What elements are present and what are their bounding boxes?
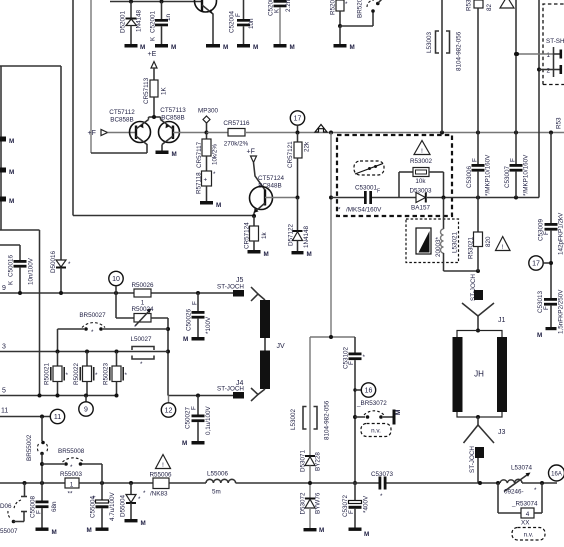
svg-text:ST-JOCH: ST-JOCH — [469, 446, 476, 473]
connector ST-JOCH (J1) — [462, 274, 506, 331]
capacitor C52005 2.2n — [268, 0, 293, 44]
spark gap BR55002 — [26, 417, 48, 484]
capacitor C53102 — [343, 337, 366, 483]
svg-text:M: M — [319, 527, 324, 534]
svg-text:F: F — [543, 306, 550, 310]
circle node 16 — [353, 383, 375, 397]
svg-text:M: M — [52, 529, 57, 536]
spark gap BR55008 — [42, 448, 102, 483]
svg-text:M: M — [171, 44, 176, 51]
svg-text:M: M — [264, 251, 269, 258]
wire vertical x=73 from top — [72, 0, 74, 216]
svg-text:3: 3 — [2, 344, 6, 351]
spark gap BR52021 (cut at top) — [357, 0, 383, 18]
wire pin1 column x=516 top — [514, 0, 518, 133]
svg-text:/NK83: /NK83 — [150, 491, 168, 498]
inductor L53021 winding — [435, 198, 459, 272]
svg-text:68n: 68n — [51, 501, 58, 512]
svg-text:M: M — [140, 44, 145, 51]
svg-text:M: M — [172, 151, 177, 158]
capacitor C52001 1n — [150, 2, 173, 45]
svg-text:F: F — [192, 301, 199, 305]
svg-text:1,5nFKP2/250V: 1,5nFKP2/250V — [558, 289, 564, 334]
svg-text:M: M — [290, 44, 295, 51]
svg-text:M: M — [183, 336, 188, 343]
svg-text:XX: XX — [521, 520, 530, 527]
svg-text:R53: R53 — [556, 117, 563, 129]
svg-text:D53072: D53072 — [300, 492, 307, 515]
svg-text:_R53074: _R53074 — [511, 501, 538, 508]
svg-text:CT57124: CT57124 — [258, 175, 284, 182]
svg-text:4: 4 — [526, 511, 530, 518]
resistor CR57116 270k/2% — [207, 120, 251, 148]
svg-text:R50023: R50023 — [103, 362, 110, 385]
svg-text:M: M — [364, 531, 369, 538]
svg-text:1N4148: 1N4148 — [303, 225, 310, 248]
svg-text:M: M — [395, 410, 402, 415]
inductor L53003 (top) — [426, 0, 463, 133]
svg-text:n.v.: n.v. — [371, 428, 381, 435]
wire grey x=91 (collector return) — [91, 0, 147, 153]
flyback core symbol — [416, 228, 431, 254]
connector J4 ST-JOCH — [217, 380, 258, 401]
svg-text:10: 10 — [112, 276, 120, 283]
svg-text:820: 820 — [485, 236, 492, 247]
big dashed box — [337, 135, 452, 216]
svg-text:D52001: D52001 — [120, 10, 127, 33]
svg-text:R52006: R52006 — [330, 0, 337, 15]
svg-text:C53006: C53006 — [466, 165, 473, 188]
capacitor C52004 10n — [229, 0, 256, 44]
svg-text:C50016: C50016 — [8, 254, 15, 277]
svg-text:C55004: C55004 — [90, 495, 97, 518]
wire y=197.5 right — [427, 196, 539, 200]
capacitor C55004 4.7u/100V — [90, 483, 117, 528]
resistor R53002 10k — [399, 158, 444, 198]
svg-text:BR50027: BR50027 — [79, 312, 106, 319]
svg-text:L53002: L53002 — [290, 408, 297, 430]
svg-text:16: 16 — [365, 388, 373, 395]
capacitor C53007 /MKP10/160V — [504, 133, 530, 198]
svg-text:C52001: C52001 — [150, 10, 157, 33]
capacitor C50026 *100V — [186, 293, 213, 337]
ground M (C52005) — [274, 44, 295, 51]
svg-text:L53003: L53003 — [426, 31, 433, 53]
capacitor C53001 /MKS4/160V — [331, 185, 416, 214]
node 11 wire — [0, 408, 50, 419]
svg-text:16A: 16A — [551, 472, 562, 478]
svg-text:M: M — [9, 169, 14, 176]
svg-text:ST-JOCH: ST-JOCH — [217, 386, 244, 393]
node 3 bus y=351.5 — [0, 344, 168, 354]
svg-text:D55004: D55004 — [120, 494, 127, 517]
warning triangle (R53021) — [496, 237, 511, 252]
svg-text:0,1u/100V: 0,1u/100V — [205, 405, 212, 435]
spark gap BR50027 — [58, 312, 169, 352]
svg-text:ST-SH: ST-SH — [546, 38, 564, 45]
svg-text:J1: J1 — [498, 317, 506, 324]
spark gap BR53072 n.v. — [353, 400, 402, 437]
transistor CT57124 BC848B — [250, 175, 298, 218]
svg-text:F: F — [543, 231, 550, 235]
svg-text:F: F — [472, 158, 479, 162]
svg-text:R57118: R57118 — [196, 172, 203, 194]
svg-text:CR57116: CR57116 — [223, 120, 250, 127]
svg-text:09246-: 09246- — [504, 489, 524, 496]
inductor L55006 5m (inline) — [206, 471, 236, 496]
svg-text:CR57117: CR57117 — [196, 141, 203, 168]
diode D53071 BY228 — [300, 449, 322, 483]
svg-text:82: 82 — [486, 3, 493, 11]
svg-text:M: M — [182, 440, 187, 447]
diode D52001 1N4148 — [120, 2, 143, 45]
svg-text:1: 1 — [70, 482, 74, 489]
svg-text:55007: 55007 — [0, 528, 18, 535]
svg-text:F: F — [348, 510, 355, 514]
svg-text:BR55002: BR55002 — [26, 434, 33, 461]
svg-text:C50026: C50026 — [186, 308, 193, 331]
ground M (R57118) — [200, 201, 221, 209]
pin M marker 2 — [0, 168, 14, 177]
svg-text:R53021: R53021 — [468, 236, 475, 259]
circle node 10 — [109, 271, 123, 293]
resistor CR57117 10k/2% — [196, 133, 219, 172]
pin M marker 1 — [0, 137, 14, 146]
svg-text:F: F — [348, 361, 355, 365]
svg-text:M: M — [350, 44, 355, 51]
svg-text:+F: +F — [247, 149, 255, 156]
wire top bus y=1.5 — [110, 0, 201, 4]
diode D53072 BYW76 — [300, 483, 322, 528]
svg-text:F: F — [377, 189, 380, 195]
wire left y=230 — [0, 230, 40, 396]
page connector arrow — [315, 125, 327, 133]
svg-text:R50022: R50022 — [73, 362, 80, 385]
resistor R53021 820 — [468, 198, 493, 272]
svg-text:4.7u/100V: 4.7u/100V — [109, 491, 116, 521]
main bus y=483 — [0, 481, 557, 485]
ground M (C55004) — [87, 527, 109, 534]
svg-text:F: F — [235, 13, 242, 17]
svg-text:L55006: L55006 — [207, 471, 229, 478]
svg-text:CR57124: CR57124 — [244, 222, 251, 249]
svg-text:BR52021: BR52021 — [357, 0, 364, 18]
capacitor C53072 *400V — [342, 481, 370, 528]
resistor R50021 — [44, 352, 69, 396]
svg-text:5m: 5m — [212, 489, 221, 496]
ground M (R52006) — [334, 26, 355, 51]
svg-text:F: F — [510, 158, 517, 162]
circle node 9 — [79, 396, 93, 417]
svg-text:12: 12 — [165, 408, 173, 415]
resistor R50023 — [103, 352, 128, 396]
svg-text:C53073: C53073 — [371, 471, 394, 478]
inductor L53002 — [290, 337, 331, 456]
wire x=539 (pin 2 net) — [537, 0, 541, 198]
connector J5 ST-JOCH — [217, 277, 258, 301]
node 5 bus y=395.5 — [0, 388, 119, 398]
resistor R50026 1 (inline) — [131, 282, 154, 307]
svg-text:R50021: R50021 — [44, 362, 51, 385]
warning triangle (top edge) — [500, 0, 514, 8]
wire R52006 to spark gap — [340, 12, 373, 26]
svg-text:10n/100V: 10n/100V — [28, 257, 35, 285]
svg-text:D06: D06 — [0, 503, 12, 510]
diode D50016 — [50, 66, 71, 293]
wire left box top y=66 — [0, 66, 61, 230]
svg-text:R530: R530 — [466, 0, 473, 11]
svg-text:D53003: D53003 — [409, 188, 432, 195]
svg-text:BA157: BA157 — [411, 205, 430, 212]
svg-text:22k: 22k — [304, 141, 311, 152]
svg-text:9: 9 — [2, 285, 6, 292]
ground M (CT57113) — [156, 151, 177, 159]
svg-text:M: M — [537, 332, 542, 339]
ground M (D53072) — [304, 527, 325, 534]
capacitor C50016 10n/100V — [0, 245, 35, 293]
circle node 17 (right) — [529, 256, 549, 270]
svg-text:+E: +E — [148, 51, 157, 58]
svg-text:1: 1 — [547, 52, 551, 59]
ground M (D55004) — [125, 519, 146, 527]
svg-text:F: F — [191, 406, 198, 410]
svg-text:*100V: *100V — [205, 316, 212, 334]
svg-text:11: 11 — [1, 408, 8, 415]
svg-text:*400V: *400V — [363, 495, 370, 513]
diode D55004 (zener) — [120, 483, 142, 519]
capacitor C55008 68n — [30, 483, 59, 528]
svg-text:+F: +F — [88, 130, 96, 137]
svg-text:M: M — [307, 251, 312, 258]
wire to JH column — [444, 269, 481, 273]
svg-text:17: 17 — [294, 116, 302, 123]
resistor CR57124 1k — [244, 216, 269, 250]
svg-text:*/MKP10/160V: */MKP10/160V — [523, 154, 530, 196]
resistor R53074 4 XX n.v. — [498, 483, 545, 540]
wire long horizontal y=215.5 — [73, 215, 254, 217]
svg-text:L53074: L53074 — [511, 465, 533, 472]
ground M (C52001) — [155, 44, 176, 51]
diode D57122 1N4148 — [288, 198, 311, 252]
connector J3 — [464, 417, 506, 483]
capacitor C53013 1,5nFKP2/250V — [537, 289, 564, 334]
ground M (C53013) — [537, 327, 557, 339]
svg-text:+: + — [204, 177, 208, 184]
ground M (C50027) — [182, 440, 205, 447]
warning triangle (in box) — [414, 141, 430, 156]
ground M (D52001) — [125, 44, 146, 51]
svg-text:1N4148: 1N4148 — [136, 9, 143, 32]
node emitters junction — [149, 115, 161, 119]
ground M (C52004) — [237, 44, 258, 51]
inductor L50027 — [130, 336, 154, 368]
ground M (CR57124) — [248, 250, 269, 258]
circle node 11 — [50, 409, 64, 423]
spark gap BR55006/BR55007 (left edge) — [0, 483, 27, 535]
svg-text:F: F — [36, 510, 43, 514]
transistor CT57113 BC858B — [159, 107, 207, 151]
svg-text:BYW76: BYW76 — [315, 492, 322, 514]
svg-text:M: M — [141, 520, 146, 527]
resistor R52006 — [330, 0, 349, 28]
svg-text:/MKS4/160V: /MKS4/160V — [346, 207, 382, 214]
svg-text:M: M — [253, 44, 258, 51]
node 9 bus y=293 — [0, 285, 233, 295]
svg-text:BY228: BY228 — [315, 452, 322, 471]
circle node 17 (left) — [290, 111, 304, 133]
svg-text:1k: 1k — [261, 231, 268, 239]
svg-text:M: M — [9, 198, 14, 205]
svg-text:R50024: R50024 — [131, 306, 154, 313]
ground M (C50026) — [183, 336, 205, 343]
inner dashed box (flyback) — [406, 219, 459, 263]
svg-text:JH: JH — [474, 370, 484, 379]
label R (cut, right edge) — [556, 117, 563, 129]
inductor L53074 (adjustable, inline) — [500, 465, 537, 496]
svg-text:L53021: L53021 — [452, 231, 459, 253]
svg-text:M: M — [216, 202, 221, 209]
resistor CR57121 22k — [287, 133, 311, 200]
svg-text:142pFKP1/2kV: 142pFKP1/2kV — [558, 212, 564, 255]
svg-text:**: ** — [68, 491, 73, 498]
resistor R55003 1 (inline) — [60, 471, 83, 498]
node +F (left) — [88, 130, 137, 138]
pin M marker 3 — [0, 197, 14, 206]
svg-text:R55003: R55003 — [60, 471, 83, 478]
svg-text:ST-JOCH: ST-JOCH — [217, 284, 244, 291]
transistor CT57112 BC858B — [109, 109, 150, 145]
yoke JH — [453, 329, 508, 420]
wire grey main y=132.5 — [245, 131, 564, 135]
capacitor C50027 0,1u/100V — [185, 396, 213, 442]
svg-text:M: M — [87, 527, 92, 534]
svg-text:C53001: C53001 — [355, 185, 378, 192]
connector ST-SH (dashed, top right) — [515, 4, 564, 85]
svg-text:BR55008: BR55008 — [58, 448, 85, 455]
svg-text:1K: 1K — [161, 86, 168, 95]
circle node 16A — [549, 465, 564, 481]
svg-text:CT57113: CT57113 — [160, 107, 186, 114]
yoke winding JV — [258, 294, 285, 395]
svg-text:9: 9 — [84, 407, 88, 414]
svg-text:8104-982-056: 8104-982-056 — [324, 400, 331, 440]
svg-text:*/MKP10/160V: */MKP10/160V — [485, 154, 492, 196]
capacitor C53009 142pFKP1/2kV — [538, 133, 564, 299]
ground M (C53072) — [349, 528, 370, 539]
svg-text:1n: 1n — [165, 13, 172, 21]
resistor R57118 (trimmer) — [196, 171, 217, 201]
svg-text:8104-982-056: 8104-982-056 — [456, 31, 463, 71]
wire x=168 column — [166, 318, 233, 398]
resistor R53005 (top edge) — [466, 0, 494, 133]
ground M (T52002) — [206, 44, 228, 51]
svg-text:D53071: D53071 — [300, 449, 307, 472]
svg-text:17: 17 — [532, 261, 540, 268]
svg-text:10n: 10n — [248, 18, 255, 29]
svg-text:CR57113: CR57113 — [143, 77, 150, 104]
svg-text:D57122: D57122 — [288, 223, 295, 246]
svg-text:C53009: C53009 — [538, 218, 545, 241]
capacitor C53073 (inline) — [371, 471, 394, 500]
wire grey junction y=337 — [310, 335, 355, 339]
resistor R50022 — [73, 352, 98, 396]
node +E — [148, 51, 158, 80]
svg-text:J3: J3 — [498, 429, 506, 436]
svg-text:n.v.: n.v. — [524, 532, 534, 539]
resistor CR57113 1K — [143, 77, 168, 117]
circle node 12 — [161, 396, 175, 418]
node +F (CT57124) — [247, 149, 266, 191]
ground M (C55008) — [36, 528, 57, 537]
svg-text:MP300: MP300 — [198, 108, 218, 115]
svg-text:R53002: R53002 — [410, 158, 433, 165]
svg-text:11: 11 — [54, 414, 61, 421]
svg-text:10k/2%: 10k/2% — [212, 144, 219, 165]
svg-text:2: 2 — [547, 68, 551, 75]
capacitor C53006 /MKP10/160V — [466, 133, 492, 198]
svg-text:10k: 10k — [415, 178, 426, 185]
test point MP300 — [198, 108, 218, 135]
svg-text:CR57121: CR57121 — [287, 141, 294, 168]
resistor R50024 (adjustable) — [116, 293, 168, 331]
svg-text:L50027: L50027 — [130, 336, 152, 343]
svg-text:C53007: C53007 — [504, 165, 511, 188]
svg-text:R55006: R55006 — [149, 472, 172, 479]
svg-text:270k/2%: 270k/2% — [224, 141, 249, 148]
ground M (D57122) — [292, 251, 312, 258]
n.v. crossed spark gap — [354, 161, 384, 175]
svg-text:BC858B: BC858B — [110, 117, 133, 124]
svg-text:20003*: 20003* — [435, 236, 442, 257]
svg-text:5: 5 — [2, 388, 6, 395]
svg-text:M: M — [9, 138, 14, 145]
svg-text:2.2n: 2.2n — [285, 0, 292, 12]
svg-text:R50026: R50026 — [131, 282, 154, 289]
svg-text:BC858B: BC858B — [161, 115, 184, 122]
transistor T52002 (top, cut off) — [195, 0, 217, 44]
svg-text:_BR53072: _BR53072 — [356, 400, 387, 407]
resistor R55006 /NK83 (inline) — [143, 455, 172, 498]
diode D53003 BA157 — [409, 188, 432, 212]
svg-text:M: M — [223, 44, 228, 51]
wire grey x=331 — [329, 133, 333, 338]
svg-text:JV: JV — [277, 343, 286, 350]
svg-text:CT57112: CT57112 — [109, 109, 135, 116]
svg-text:D50016: D50016 — [50, 250, 57, 273]
